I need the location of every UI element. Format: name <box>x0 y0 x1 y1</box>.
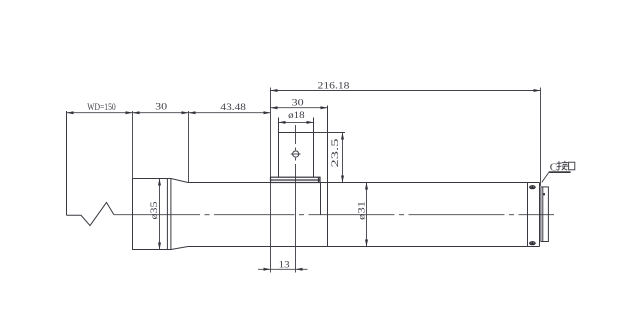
rear end cap left edge <box>527 183 529 247</box>
svg-text:ø31: ø31 <box>356 201 367 220</box>
dimension 43.48 <box>189 102 271 114</box>
svg-text:23.5: 23.5 <box>330 138 341 167</box>
dimension ø18 <box>279 110 314 124</box>
node object-plane line <box>66 111 68 215</box>
C-mount flange disc <box>541 187 549 242</box>
dimension ø35 <box>149 179 161 250</box>
flange bar on tube <box>271 177 321 182</box>
hanzi KOU strokes <box>569 162 575 170</box>
dimension 13 <box>258 260 308 271</box>
wire taper top <box>171 179 188 183</box>
svg-text:216.18: 216.18 <box>318 81 350 92</box>
screw top on end cap <box>529 185 536 189</box>
dimension 30 (top mount section) <box>271 97 328 109</box>
screw bottom on end cap <box>529 241 536 245</box>
connector block U-mount <box>279 118 314 178</box>
wire extension line at x=188.5 <box>188 111 190 183</box>
wire extension line at x=540.5 <box>540 88 542 187</box>
hanzi JIE strokes <box>557 161 569 170</box>
wire section boundary / extension line at x=327.5 <box>327 106 329 247</box>
svg-text:43.48: 43.48 <box>220 102 246 113</box>
dimension 30 (front) <box>133 102 189 115</box>
node screw hole circle <box>293 151 299 157</box>
wire long extension line at x=271 <box>270 88 272 273</box>
svg-text:30: 30 <box>292 97 304 108</box>
label underline <box>549 171 570 173</box>
wire flange right edge drop line <box>320 183 322 215</box>
wire main horizontal centerline <box>114 214 554 216</box>
wire block vertical centerline <box>295 125 297 183</box>
dimension 23.5 <box>314 133 346 183</box>
wire screw-hole center tick <box>291 153 301 155</box>
main tube body <box>188 183 540 247</box>
wire taper bottom <box>171 247 188 250</box>
dimension WD=150 <box>67 102 133 114</box>
dimension ø31 <box>356 183 368 247</box>
wire zigzag break line to lens front <box>67 202 114 225</box>
label C-interface text <box>549 161 575 174</box>
svg-text:30: 30 <box>155 102 167 113</box>
wire screw centerline through tube + 13-extension <box>295 183 297 273</box>
lens front cap (ø35 section) <box>133 179 171 250</box>
node small pin on disc <box>543 193 545 195</box>
dimension 216.18 overall length <box>271 81 541 93</box>
wire extension at x=133 above cap <box>132 111 134 179</box>
svg-text:ø35: ø35 <box>149 201 160 219</box>
svg-text:ø18: ø18 <box>288 110 305 121</box>
label C-interface leader <box>542 172 550 183</box>
svg-text:13: 13 <box>279 260 290 271</box>
svg-text:WD=150: WD=150 <box>87 102 116 113</box>
